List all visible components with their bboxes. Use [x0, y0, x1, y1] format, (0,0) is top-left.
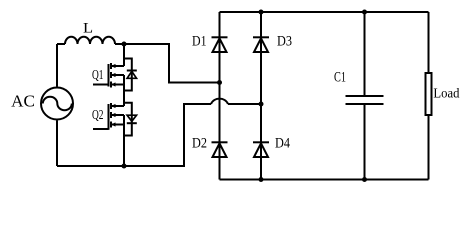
- svg-text:Q1: Q1: [92, 67, 104, 82]
- node: junction dot L output: [122, 42, 127, 47]
- wire: Q1 source to Q2 drain spine: [123, 75, 125, 106]
- node: junction dot bottom wire: [122, 164, 127, 169]
- transistor Q1 stubs: [111, 66, 124, 85]
- wire: AC loop left vertical: [56, 44, 58, 166]
- diode Q1 body triangle: [127, 71, 136, 78]
- diode D2 cathode bar: [212, 141, 228, 143]
- node: junction dot top rail / C1: [362, 10, 367, 15]
- wire: hop over left rail: [211, 99, 228, 104]
- diode D4 triangle: [254, 143, 268, 157]
- wire: bridge top rail: [220, 11, 429, 13]
- node: junction dot right rail mid: [259, 102, 264, 107]
- wire: top wire left segment: [57, 43, 65, 45]
- node: junction dot bottom rail / C1: [362, 177, 367, 182]
- diode D3 triangle: [254, 38, 268, 52]
- wire: bridge left rail: [219, 12, 221, 180]
- transistor Q1 channel segments: [110, 63, 112, 88]
- transistor Q1 arrows: [111, 64, 116, 87]
- diode D2 triangle: [213, 143, 227, 157]
- diode D3 cathode bar: [253, 36, 269, 38]
- svg-text:Q2: Q2: [92, 107, 104, 122]
- node: junction dot left rail mid: [217, 80, 222, 85]
- svg-text:D2: D2: [192, 135, 207, 151]
- inductor L: [65, 37, 115, 44]
- capacitor C1 plates: [346, 96, 384, 104]
- wire: bridge right rail: [260, 12, 262, 180]
- diode Q2 body triangle: [127, 115, 136, 121]
- diode Q1 body cathode bar: [127, 70, 137, 72]
- wire: bottom wire: [57, 104, 211, 166]
- wire: C1 branch: [364, 12, 366, 180]
- svg-text:C1: C1: [334, 70, 346, 86]
- wire: load branch: [428, 12, 430, 180]
- transistor Q2 arrows: [111, 104, 116, 127]
- svg-text:AC: AC: [11, 92, 35, 111]
- svg-text:L: L: [83, 21, 93, 37]
- AC sine wave: [43, 97, 72, 111]
- transistor Q1 gate lead: [93, 84, 109, 86]
- transistor Q2 channel segments: [110, 103, 112, 128]
- svg-text:D1: D1: [192, 33, 207, 49]
- svg-text:Load: Load: [433, 87, 459, 102]
- diode D1 triangle: [213, 38, 227, 52]
- transistor Q2 gate lead: [93, 128, 109, 130]
- wire: Q2 source spine: [123, 115, 125, 166]
- svg-text:D3: D3: [277, 33, 292, 49]
- wire: mid wire to right rail: [228, 103, 261, 105]
- transistor Q2 stubs: [111, 106, 124, 125]
- wire: bridge bottom rail: [220, 179, 429, 181]
- diode Q1 body lead: [124, 59, 132, 91]
- wire: Q1 drain spine: [123, 44, 125, 66]
- diode Q2 body cathode bar: [127, 122, 137, 124]
- node: junction dot bottom rail / right rail: [259, 177, 264, 182]
- diode Q2 body lead: [124, 103, 132, 136]
- transistor Q2 gate bar: [108, 104, 110, 130]
- wire: top wire right segment to corner: [115, 44, 220, 83]
- load resistor rectangle: [426, 73, 432, 115]
- transistor Q1 gate bar: [108, 64, 110, 87]
- AC source circle: [41, 88, 73, 120]
- diode D1 cathode bar: [212, 36, 228, 38]
- svg-text:D4: D4: [275, 135, 290, 151]
- diode D4 cathode bar: [253, 141, 269, 143]
- node: junction dot top rail / right rail: [259, 10, 264, 15]
